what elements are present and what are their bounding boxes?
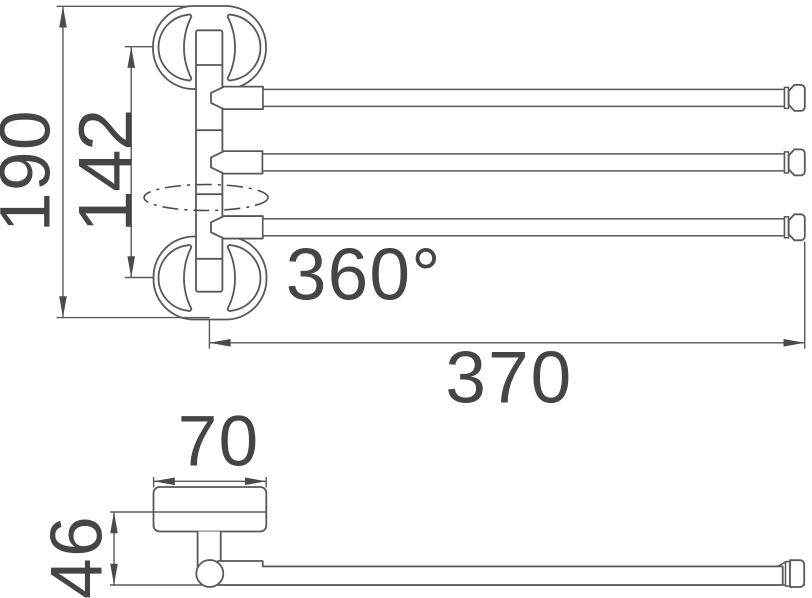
arm 1 bar [263, 89, 785, 106]
svg-text:70: 70 [178, 403, 260, 482]
arm 3 hub [211, 216, 263, 239]
post collar joint line 1 [197, 64, 223, 66]
dim 46 arrow up [110, 512, 118, 533]
side view pivot ball [196, 560, 223, 587]
dim 142 arrow up [127, 47, 135, 68]
side view pivot stem [198, 532, 221, 567]
side view end cap [790, 560, 804, 587]
dim 370 extension line right [804, 242, 806, 349]
dim 46 dimension line [113, 512, 115, 585]
dim 370 extension line left [208, 319, 210, 349]
post collar joint line 3 [197, 193, 223, 195]
arm 1 end neck [785, 87, 789, 108]
arm 3 bar [263, 219, 785, 236]
svg-text:46: 46 [37, 515, 118, 598]
dim 370 arrow right [784, 339, 805, 347]
arm 3 end neck [785, 217, 789, 238]
dim 70 arrow left [154, 478, 175, 486]
arm 2 end cap [789, 149, 805, 175]
svg-text:190: 190 [0, 109, 66, 232]
dim 46 extension line top (merges with plate split line) [110, 511, 266, 513]
dim 142 extension line top [125, 46, 154, 48]
side view arm hub [214, 561, 783, 585]
dim 46 arrow down [110, 564, 118, 585]
escutcheon bottom left crescent [159, 245, 192, 311]
svg-text:360°: 360° [286, 235, 442, 316]
dim 190 arrow up [59, 6, 67, 27]
svg-text:370: 370 [445, 338, 573, 419]
dim 142 dimension line [130, 47, 132, 278]
dim 190 dimension line [62, 6, 64, 317]
dim 370 dimension line [209, 342, 804, 344]
dim 46 extension line bottom (merges with bar underside) [110, 584, 805, 586]
dim 142 extension line bottom [125, 277, 155, 279]
escutcheon top left crescent [159, 14, 192, 80]
arm 2 end neck [785, 152, 789, 173]
escutcheon top right crescent [228, 14, 261, 80]
post collar joint line 2 [197, 129, 223, 131]
dim 70 extension line right [265, 477, 267, 488]
dim 70 extension line left [153, 477, 155, 488]
side view bar top edge [263, 565, 778, 567]
dim 142 arrow down [127, 256, 135, 277]
wall mount escutcheon top [153, 6, 266, 89]
arm 2 bar [263, 154, 785, 171]
dim 70 arrow right [245, 478, 266, 486]
arm 2 hub [211, 151, 263, 174]
side view wall plate [154, 487, 267, 532]
wall mount escutcheon bottom [154, 237, 267, 320]
dim 70 dimension line [154, 480, 267, 482]
dim 190 arrow down [59, 296, 67, 317]
dim 190 extension line top [57, 5, 197, 7]
rotation ellipse (dash-dot centerline) [144, 185, 268, 211]
arm 1 end cap [789, 85, 805, 111]
vertical swivel post [196, 30, 222, 291]
escutcheon bottom right crescent [228, 245, 261, 311]
side view plate split line [154, 511, 267, 513]
svg-text:142: 142 [64, 110, 149, 232]
dim 190 extension line bottom (tangent under escutcheon) [57, 317, 210, 319]
arm 1 hub [211, 87, 263, 110]
post collar joint line 4 [197, 258, 223, 260]
arm 3 end cap [789, 214, 805, 240]
dim 370 arrow left [209, 339, 230, 347]
side view end neck [778, 562, 786, 567]
